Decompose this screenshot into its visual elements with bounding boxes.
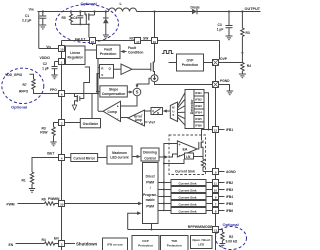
pin 10 IFB3 [213, 187, 234, 193]
mux M U X [170, 102, 177, 122]
svg-text:FPO: FPO [50, 88, 57, 92]
wire current sense into summing node [137, 78, 151, 86]
junction on rail at Q-pmos right tab [93, 10, 95, 12]
block U-dpwm Direct PWM Programmable PWM [143, 163, 159, 224]
block U-osc Oscillator [80, 119, 100, 128]
svg-text:Compensation: Compensation [102, 92, 126, 96]
block current sink 5 [171, 201, 206, 207]
svg-text:Comp: Comp [108, 110, 117, 114]
wire EA plus input reference [164, 144, 178, 158]
svg-text:R2: R2 [229, 235, 233, 239]
wires direct pwm to sinks [158, 183, 171, 211]
svg-text:9.09 kΩ: 9.09 kΩ [226, 239, 238, 243]
pin 1 VDDIO [40, 56, 65, 65]
wire ISET to R1 [32, 158, 59, 173]
svg-text:Fault: Fault [128, 46, 137, 50]
resistor R4 [241, 63, 251, 75]
svg-text:Condition: Condition [128, 51, 143, 55]
wire comparator output to latch R [98, 110, 103, 112]
svg-text:VIN: VIN [46, 45, 51, 49]
svg-text:R5: R5 [62, 16, 66, 20]
pin 11 IFB2 [213, 180, 234, 186]
svg-text:RFPWM/MODE: RFPWM/MODE [188, 225, 213, 229]
pin 15 OVP [213, 57, 228, 65]
pin 8 IFB6 [213, 208, 234, 214]
svg-text:+: + [179, 143, 181, 147]
wire FAULT pin to fault protection [92, 44, 94, 45]
ground below C1 [39, 25, 46, 29]
block current sink 2 [171, 180, 206, 186]
junction IFB1 node [208, 129, 210, 131]
dashed current sink detail box [169, 135, 206, 175]
svg-text:/: / [150, 186, 151, 190]
diode D2 clamp to ground [103, 12, 109, 36]
op-amp U-comp PWM comparator [103, 101, 121, 121]
svg-text:IFB5: IFB5 [195, 117, 202, 121]
block U-ad A=D converter [151, 108, 163, 115]
block LN fet label [185, 153, 194, 159]
svg-text:C3: C3 [218, 23, 222, 27]
svg-text:D: D [157, 111, 159, 115]
svg-text:Current Sink: Current Sink [178, 189, 196, 193]
pin 4 ISET [47, 152, 65, 161]
svg-text:Optional: Optional [81, 1, 97, 6]
wire gate node down to FAULT pin [88, 24, 90, 37]
inductor L [109, 2, 137, 12]
junction FPO node [97, 93, 99, 95]
optional ellipse around RFPO pull-up [2, 68, 44, 103]
resistor R5 [62, 12, 73, 25]
resistor R6 [42, 198, 59, 206]
svg-text:IFB6: IFB6 [195, 123, 202, 127]
wire bus branch to sink1 LN [164, 159, 184, 164]
wire oscillator to ramp node [92, 94, 98, 119]
svg-text:IFB1: IFB1 [195, 91, 202, 95]
wire AD to error amp input [145, 110, 152, 112]
svg-text:R3: R3 [246, 31, 250, 35]
driver buffer triangle [121, 64, 132, 75]
pin 20 PWMIN [48, 197, 65, 207]
wire dim arrow to EA minus [169, 154, 177, 157]
resistor R1 [22, 172, 34, 189]
svg-text:R1: R1 [22, 179, 26, 183]
pin 6 FPO [50, 88, 65, 97]
pin 18 FAULT [75, 38, 96, 44]
pin 12 IFB1 [213, 127, 234, 133]
wire inductor to SW node [137, 11, 155, 13]
svg-text:VDD_GPIO: VDD_GPIO [5, 73, 22, 77]
junction at C3 [228, 10, 230, 12]
svg-text:+: + [117, 105, 119, 109]
svg-text:LED: LED [198, 242, 205, 246]
wire VDD_GPIO to R7 [30, 74, 34, 79]
junction R3 bottom [241, 52, 243, 54]
svg-text:Protection: Protection [182, 63, 198, 67]
svg-text:VIN: VIN [29, 8, 34, 12]
wire direct pwm down to RFPWM pin [151, 224, 153, 230]
arrow ramp into slope compensation [97, 90, 101, 93]
op-amp U-easink EA [177, 141, 197, 157]
junction RFPWM wire at DPWM drop [151, 229, 153, 231]
resistor R2 [219, 230, 238, 244]
svg-text:Current Mirror: Current Mirror [73, 156, 95, 160]
svg-text:16: 16 [153, 40, 157, 44]
wire ramp node to latch S input [97, 74, 100, 92]
ground at PGND [227, 91, 234, 95]
junction gate node at FAULT drop [88, 23, 90, 25]
svg-text:IFB no use: IFB no use [107, 243, 123, 247]
wire drain up from sink fet [201, 139, 203, 141]
wire VIN rail [38, 11, 109, 13]
svg-text:Optional: Optional [11, 105, 27, 110]
resistor R7 RFPO [19, 79, 59, 94]
svg-text:FSW: FSW [40, 131, 48, 135]
svg-text:Vref: Vref [149, 121, 156, 125]
block current sink 4 [171, 194, 206, 200]
wire summing node to comparator plus [121, 96, 138, 106]
wire IFB1 row to pin 12 [204, 93, 213, 130]
svg-text:IFB3: IFB3 [195, 104, 202, 108]
svg-text:PWM: PWM [146, 205, 154, 209]
svg-text:10: 10 [214, 188, 218, 192]
junction on rail at clamp diode [105, 10, 107, 12]
capacitor C2 [42, 62, 57, 76]
ground below R1 [29, 189, 35, 193]
ground below R2 [220, 244, 226, 248]
pin 9 AGND [213, 169, 237, 175]
wire VIN pin to linear regulator [65, 48, 66, 50]
svg-text:1 µF: 1 µF [42, 66, 49, 70]
svg-text:EN: EN [54, 237, 59, 241]
transistor Q-fpo open drain [75, 67, 90, 105]
arrow MUX output into AD [163, 109, 171, 112]
arrow PWMIN to direct pwm [65, 202, 143, 206]
arrow max led to dimming control [132, 155, 141, 159]
svg-text:Current Sink: Current Sink [178, 196, 196, 200]
pin 3 FSW [59, 120, 65, 126]
chip boundary [62, 41, 220, 250]
wire EN to R4 [16, 243, 45, 245]
summing node S [127, 88, 141, 96]
svg-text:LN: LN [186, 155, 191, 159]
svg-text:11: 11 [214, 181, 217, 185]
ground below C2 [51, 75, 57, 79]
wire latch R input stub [98, 67, 100, 69]
wire fault protection down to FPO line [97, 59, 99, 112]
svg-text:R4: R4 [247, 64, 251, 68]
wires sinks to IFB pins [206, 183, 213, 211]
svg-text:S: S [136, 90, 139, 95]
wire FPO pin line [65, 93, 99, 95]
svg-text:VDDIO: VDDIO [40, 56, 51, 60]
junction on rail at C1 [42, 10, 44, 12]
svg-text:PWM: PWM [7, 203, 15, 207]
pin 14 PGND [213, 79, 231, 88]
optional ellipse around disconnect circuit [56, 5, 119, 43]
svg-text:OVP: OVP [187, 59, 195, 63]
svg-text:IFB2: IFB2 [195, 98, 202, 102]
wire ISET pin to current mirror [65, 157, 71, 159]
wire dimming bus vertical [163, 158, 165, 212]
capacitor C1 [22, 12, 46, 26]
pin 16 SW [143, 36, 158, 44]
wire PGND pin to ground [219, 85, 230, 92]
block U-mirror Current Mirror [71, 154, 98, 162]
svg-text:Fault: Fault [104, 48, 113, 52]
block U-det Detector [185, 90, 194, 129]
transistor Q-power switching fet [151, 44, 155, 75]
block U-linreg Linear Regulator [66, 46, 86, 65]
svg-text:AGND: AGND [226, 170, 236, 174]
svg-text:1 µF: 1 µF [217, 28, 224, 32]
svg-text:EN: EN [9, 243, 14, 247]
svg-text:Maximum: Maximum [112, 151, 127, 155]
wire VDDIO pin to linear regulator [65, 61, 66, 63]
junction ramp node [96, 91, 98, 93]
svg-text:+: + [141, 122, 143, 126]
block TSD Protection [161, 236, 189, 250]
svg-text:R6: R6 [42, 198, 46, 202]
ground below FSW resistor [50, 142, 56, 146]
svg-text:Current Sink: Current Sink [178, 203, 196, 207]
svg-text:mable: mable [146, 198, 155, 202]
resistor R3 FSW set [40, 123, 58, 143]
svg-text:Current Sink: Current Sink [175, 169, 195, 173]
wire gate node R5/C4 to FAULT [71, 23, 89, 25]
optional ellipse around R2 [216, 227, 247, 250]
ground below R4 [239, 74, 246, 78]
svg-text:Protection: Protection [100, 52, 116, 56]
wire sink resistor to AGND [203, 171, 213, 173]
arrow mode into direct pwm [137, 211, 141, 215]
arrow fault conditions into fault protection [120, 46, 143, 55]
wire PWM to R6 [18, 203, 45, 205]
svg-text:Protection: Protection [138, 243, 153, 247]
block U-ovp OVP Protection [177, 54, 204, 71]
ground below diode D2 [103, 35, 109, 39]
svg-text:R7: R7 [23, 83, 27, 87]
block U-maxled Maximum LED current [107, 146, 132, 164]
transistor Q1 pmos disconnect switch [85, 12, 95, 25]
svg-text:IFB1: IFB1 [226, 128, 233, 132]
svg-text:C4: C4 [73, 16, 77, 20]
junction bus row 5 [163, 203, 165, 205]
wire diode to OUTPUT [197, 11, 261, 13]
pin 7 IFB5 [213, 201, 234, 207]
svg-text:Regulator: Regulator [68, 56, 84, 60]
svg-text:PGND: PGND [220, 79, 230, 83]
svg-text:19: 19 [60, 47, 64, 51]
svg-text:IFB4: IFB4 [195, 111, 202, 115]
svg-text:Diode: Diode [191, 6, 200, 10]
block current sink 3 [171, 187, 206, 193]
wire FSW pin to oscillator [65, 122, 81, 124]
pin 17 NC [130, 36, 141, 44]
capacitor C4 [73, 12, 83, 25]
junction bus row 3 [163, 189, 165, 191]
junction gate node at C4 [79, 23, 81, 25]
svg-text:Current Sink: Current Sink [178, 210, 196, 214]
block current sink 6 [171, 208, 206, 214]
svg-text:R3: R3 [42, 126, 46, 130]
wire FAULT vertical joins pin 18 [91, 37, 93, 39]
svg-text:Dimming: Dimming [143, 151, 157, 155]
op-amp U-ea boost error amp [128, 110, 145, 126]
svg-text:17: 17 [136, 40, 140, 44]
svg-text:S: S [101, 73, 103, 77]
svg-text:13: 13 [214, 229, 218, 233]
arrow dimming control into current sink detail [160, 155, 169, 159]
svg-text:IFB6: IFB6 [226, 209, 233, 213]
wire driver to gate of power fet [132, 68, 151, 70]
junction bus row 4 [163, 196, 165, 198]
svg-text:OUTPUT: OUTPUT [245, 7, 261, 11]
svg-text:IFB5: IFB5 [226, 202, 233, 206]
block U-latch RS latch [100, 65, 114, 79]
block IFB no use [103, 238, 128, 250]
svg-text:ISET: ISET [47, 152, 54, 156]
junction bus at sink1 branch [163, 163, 165, 165]
pin 9 IFB4 [213, 194, 234, 200]
wire SW node down to SW pin [154, 12, 156, 38]
wire SW node to diode [155, 11, 193, 13]
svg-text:Shutdown: Shutdown [76, 242, 98, 247]
diode D1 rectifier [191, 6, 200, 15]
current sense circle [151, 75, 158, 82]
svg-text:RFPO: RFPO [19, 90, 29, 94]
junction on rail at R5 [70, 10, 72, 12]
wires detector to mux [178, 93, 186, 126]
svg-text:2.2 µF: 2.2 µF [22, 18, 31, 22]
svg-text:Program-: Program- [143, 193, 157, 197]
resistor R-sense sink [201, 157, 204, 172]
block Open Short LED [191, 236, 213, 249]
svg-text:LED current: LED current [110, 155, 129, 159]
svg-text:IFB4: IFB4 [226, 195, 233, 199]
svg-text:Current Sink: Current Sink [178, 182, 196, 186]
svg-text:X: X [172, 113, 174, 117]
ground arrow below Q-fpo [72, 105, 76, 110]
wire OVP block to OVP pin [204, 62, 213, 64]
svg-text:IFB3: IFB3 [226, 188, 233, 192]
block U-slope Slope Compensation [100, 86, 127, 97]
wire sense to PGND pin [155, 82, 213, 85]
pin 2 EN [54, 237, 65, 247]
svg-text:OVP: OVP [220, 57, 228, 61]
svg-text:EA: EA [183, 148, 188, 152]
block U-fault Fault Protection [97, 45, 121, 59]
svg-text:Protection: Protection [167, 243, 182, 247]
junction bus row 2 [163, 182, 165, 184]
transistor Q-sink [197, 140, 203, 156]
svg-text:SW: SW [143, 36, 149, 40]
junction SW node [153, 10, 155, 12]
wire current sink 1 drain to IFB1 node [202, 130, 209, 141]
capacitor C3 [217, 12, 233, 37]
pin 13 RFPWM/MODE [188, 225, 219, 233]
svg-text:Linear: Linear [70, 51, 81, 55]
block IFB input list [194, 90, 204, 129]
block U-dim Dimming Control [141, 148, 159, 161]
wire latch Q to driver [114, 68, 122, 70]
resistor R3 [241, 12, 250, 63]
square wave symbol [162, 51, 174, 54]
resistor R4 en [42, 238, 59, 245]
svg-text:Control: Control [144, 156, 155, 160]
pin 19 VIN [39, 12, 65, 52]
wire LN box to source node [194, 156, 204, 158]
svg-text:Direct: Direct [146, 175, 156, 179]
svg-text:PWM: PWM [146, 181, 154, 185]
svg-text:20: 20 [60, 202, 64, 206]
ground below C3 [226, 36, 233, 40]
wire EN arrow to shutdown [65, 243, 76, 245]
svg-text:12: 12 [214, 128, 218, 132]
wire linear regulator to fault protection [85, 49, 97, 51]
wire stub into OVP block [169, 62, 177, 64]
wire RFPWM mode into direct pwm [128, 213, 139, 229]
wire Vref to error amp [145, 121, 156, 125]
svg-text:Optional: Optional [223, 222, 239, 227]
svg-text:Oscillator: Oscillator [83, 122, 99, 126]
svg-text:IFB2: IFB2 [226, 181, 233, 185]
junction at R3 [241, 10, 243, 12]
svg-text:FAULT: FAULT [75, 38, 85, 42]
wire current mirror to max led block [98, 157, 107, 159]
block OCP Protection [132, 236, 159, 250]
svg-text:18: 18 [91, 40, 95, 44]
junction on rail at C4 [79, 10, 81, 12]
wire error amp to comparator minus [121, 117, 129, 119]
wire OVP pin to R3/R4 node [219, 62, 243, 64]
